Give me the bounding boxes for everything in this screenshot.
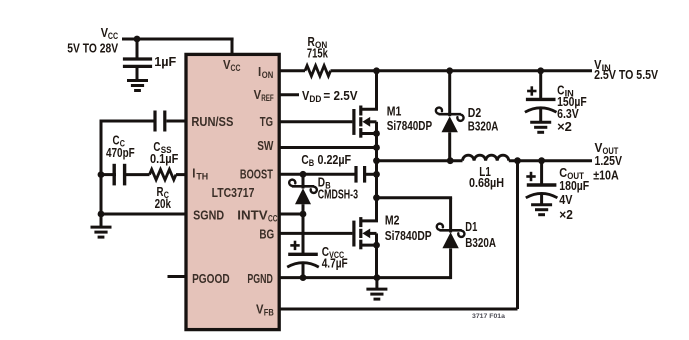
svg-text:470pF: 470pF — [106, 145, 135, 160]
svg-text:180µF: 180µF — [559, 178, 589, 193]
svg-text:2.5V TO 5.5V: 2.5V TO 5.5V — [594, 67, 658, 82]
svg-text:SGND: SGND — [193, 208, 224, 223]
svg-text:B320A: B320A — [468, 119, 499, 134]
svg-text:0.68µH: 0.68µH — [469, 175, 504, 190]
svg-text:4.7µF: 4.7µF — [322, 256, 348, 271]
svg-text:I: I — [192, 166, 195, 181]
svg-text:D1: D1 — [465, 219, 477, 234]
svg-text:B: B — [309, 158, 315, 168]
svg-text:20k: 20k — [155, 196, 172, 211]
svg-text:0.22µF: 0.22µF — [318, 152, 352, 167]
svg-text:V: V — [256, 302, 264, 317]
svg-text:I: I — [258, 64, 261, 79]
svg-text:×2: ×2 — [557, 119, 572, 134]
svg-text:TH: TH — [196, 172, 208, 182]
svg-text:1.25V: 1.25V — [595, 153, 623, 168]
svg-text:SW: SW — [257, 138, 274, 153]
svg-text:RUN/SS: RUN/SS — [191, 114, 233, 129]
svg-text:B320A: B320A — [465, 235, 496, 250]
svg-text:±10A: ±10A — [593, 168, 619, 183]
svg-text:4V: 4V — [559, 192, 572, 207]
svg-text:M1: M1 — [387, 104, 402, 119]
svg-text:= 2.5V: = 2.5V — [323, 88, 357, 103]
svg-text:INTV: INTV — [237, 208, 268, 223]
svg-text:PGND: PGND — [247, 271, 272, 286]
svg-text:1µF: 1µF — [154, 54, 176, 69]
svg-text:REF: REF — [261, 93, 274, 103]
svg-text:BOOST: BOOST — [240, 167, 273, 182]
svg-text:×2: ×2 — [559, 207, 573, 222]
svg-text:FB: FB — [264, 308, 274, 318]
svg-text:LTC3717: LTC3717 — [212, 185, 255, 200]
svg-text:DD: DD — [309, 94, 321, 104]
svg-text:BG: BG — [259, 226, 274, 241]
svg-text:PGOOD: PGOOD — [192, 271, 230, 286]
svg-text:ON: ON — [262, 70, 274, 80]
svg-text:5V TO 28V: 5V TO 28V — [67, 41, 118, 56]
svg-text:Si7840DP: Si7840DP — [387, 118, 433, 133]
svg-text:0.1µF: 0.1µF — [150, 151, 178, 166]
svg-text:715k: 715k — [307, 45, 329, 60]
svg-text:TG: TG — [260, 114, 273, 129]
svg-text:3717 F01a: 3717 F01a — [472, 313, 505, 320]
svg-text:Si7840DP: Si7840DP — [385, 228, 432, 243]
svg-text:M2: M2 — [385, 213, 400, 228]
svg-text:CC: CC — [268, 214, 278, 224]
svg-text:CMDSH-3: CMDSH-3 — [318, 187, 358, 202]
svg-text:CC: CC — [108, 31, 118, 41]
svg-text:CC: CC — [231, 63, 241, 73]
